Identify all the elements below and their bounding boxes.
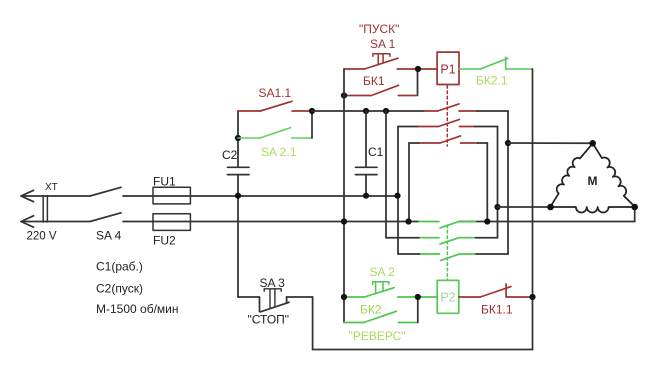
- node SA2/БК2 output: [415, 294, 421, 300]
- svg-text:SA1.1: SA1.1: [259, 86, 292, 100]
- pushbutton SA3 right tick: [286, 297, 288, 303]
- svg-text:XT: XT: [45, 182, 58, 193]
- contact БК2: [344, 311, 417, 322]
- svg-text:"РЕВЕРС": "РЕВЕРС": [349, 329, 406, 343]
- svg-text:220 V: 220 V: [27, 231, 57, 243]
- wire БК1 right riser: [417, 69, 419, 96]
- node motor lower-left vertex: [547, 204, 554, 211]
- wire green row2 left corner: [386, 237, 419, 239]
- wire green row3 left corner: [398, 253, 420, 255]
- node БК1.1 output on right riser: [529, 294, 535, 300]
- capacitor C2 plate top: [228, 166, 250, 168]
- svg-text:C1: C1: [368, 145, 384, 159]
- relay coil P1: [437, 52, 459, 84]
- wire riser x=508 (row1 to green row3): [507, 111, 509, 254]
- wire riser x=497.5 (row2 to green row2 right): [497, 127, 499, 238]
- svg-text:SA 2.1: SA 2.1: [261, 145, 297, 159]
- node БК1 left: [341, 92, 347, 98]
- svg-text:P2: P2: [440, 291, 455, 305]
- svg-text:FU1: FU1: [153, 175, 176, 189]
- switch SA4 pole 2 blade: [90, 213, 121, 222]
- svg-text:SA 2: SA 2: [370, 265, 396, 279]
- wire riser x=487.3 (row3 to bottom main): [486, 143, 488, 222]
- node motor lower-right vertex: [631, 204, 638, 211]
- svg-text:М-1500 об/мин: М-1500 об/мин: [96, 302, 178, 316]
- wire control left riser x=344: [343, 69, 345, 323]
- wire top supply from arrow to SA4: [21, 195, 90, 197]
- node SA2 left: [341, 294, 347, 300]
- svg-text:FU2: FU2: [153, 234, 176, 248]
- node C2 / SA2.1 junction: [235, 135, 241, 141]
- contact БК2.1: [459, 57, 533, 69]
- contact БК1.1: [459, 284, 533, 297]
- node motor lower-left branch on riser x=497.5: [494, 204, 500, 210]
- wire motor lower-right drop: [634, 207, 636, 222]
- svg-text:БК1.1: БК1.1: [481, 303, 513, 317]
- contact P2.2 green row2: [419, 238, 476, 245]
- contact P2.1 green row1: [419, 221, 476, 228]
- wire row3 right corner: [478, 142, 488, 144]
- wire SA3 right to frame riser: [287, 296, 313, 298]
- wire bottom frame: [313, 349, 533, 351]
- wire green row3 right corner: [476, 253, 508, 255]
- wire to motor lower-left vertex: [498, 206, 551, 208]
- arrow top supply terminal: [21, 190, 34, 201]
- wire C2 branch vertical x=238 upper: [237, 111, 239, 167]
- wire top main line (SA4 to node at x=397): [123, 195, 397, 197]
- wire to motor top vertex: [508, 142, 593, 144]
- node riser x=487.3 on bottom main line: [484, 218, 490, 224]
- node riser x=398 on top main line: [394, 193, 400, 199]
- contact SA2.1: [238, 128, 312, 138]
- node SA1.1 output: [309, 108, 315, 114]
- wire start-branch row1 left (to red contact): [312, 110, 424, 112]
- mechanical link P2 dashed: [446, 225, 448, 280]
- switch SA4 pole 1 blade: [90, 187, 121, 196]
- fuse FU2: [153, 214, 190, 231]
- mechanical link P1 dashed: [446, 86, 448, 147]
- pushbutton SA3 СТОП left corner: [238, 297, 260, 312]
- wire riser x=398 (row2 to green row3 left): [397, 127, 399, 255]
- svg-text:БК2: БК2: [360, 303, 382, 317]
- wire C1 branch vertical lower: [365, 175, 367, 196]
- motor M winding left: [551, 143, 593, 206]
- wire C1 branch vertical upper: [365, 111, 367, 167]
- contact P2.3 green row3: [420, 254, 477, 261]
- arrow bottom supply terminal: [21, 216, 34, 227]
- svg-text:БК2.1: БК2.1: [476, 74, 508, 88]
- pushbutton SA2 actuator: [373, 282, 389, 294]
- node C1 bottom on top main line: [363, 193, 369, 199]
- node C2 / top main line: [235, 193, 241, 199]
- node SA1/БК1 output: [415, 66, 421, 72]
- wire crossover riser x=386 (row1 to green row2 left): [385, 111, 387, 238]
- node motor top vertex: [589, 140, 596, 147]
- pushbutton SA2 РЕВЕРС: [344, 288, 437, 297]
- svg-text:C1(раб.): C1(раб.): [96, 260, 143, 274]
- node control riser / bottom main line: [341, 218, 347, 224]
- node motor top branch on riser x=508: [505, 140, 511, 146]
- svg-text:C2(пуск): C2(пуск): [96, 282, 143, 296]
- fuse FU1: [153, 187, 190, 204]
- wire row1 right corner to riser x=508: [477, 110, 508, 112]
- wire riser x=409 (row3 to bottom main): [408, 143, 410, 222]
- node row1 / crossover branch: [383, 108, 389, 114]
- wire row3 left corner: [409, 142, 419, 144]
- svg-text:SA 1: SA 1: [370, 37, 396, 51]
- capacitor C2 plate bottom: [228, 174, 250, 176]
- pushbutton SA1 ПУСК: [344, 58, 437, 69]
- terminal block XT bar 2: [46, 196, 48, 223]
- node riser x=409 on bottom main line: [405, 218, 411, 224]
- wire bottom main line left segment: [123, 221, 419, 223]
- wire bottom supply from arrow to SA4: [21, 221, 90, 223]
- wire right control riser x=532.5: [532, 69, 534, 350]
- wire frame riser x=312.6: [312, 297, 314, 350]
- pushbutton SA3 blade: [261, 302, 290, 312]
- wire БК2 right riser: [417, 297, 419, 323]
- wire C2 to stop-branch vertical x=238 lower: [237, 175, 239, 297]
- contact SA1.1: [238, 101, 312, 111]
- svg-text:P1: P1: [440, 63, 455, 77]
- wire bottom main line right segment to motor: [460, 221, 635, 223]
- contact БК1: [344, 85, 416, 95]
- svg-text:M: M: [588, 174, 598, 188]
- pushbutton SA3 actuator: [264, 289, 281, 309]
- wire junction SA1.1/SA2.1 vertical: [311, 111, 313, 138]
- capacitor C1 plate bottom: [356, 174, 378, 176]
- svg-text:SA 3: SA 3: [260, 276, 286, 290]
- node C1 top: [363, 108, 369, 114]
- contact P1.3 row3: [419, 136, 478, 143]
- capacitor C1 plate top: [356, 166, 378, 168]
- wire row2 right corner: [475, 126, 498, 128]
- svg-text:C2: C2: [222, 148, 238, 162]
- svg-text:"СТОП": "СТОП": [248, 313, 290, 327]
- svg-text:SA 4: SA 4: [96, 229, 122, 243]
- motor M winding right: [593, 143, 635, 206]
- svg-text:"ПУСК": "ПУСК": [359, 22, 399, 36]
- pushbutton SA1 actuator: [373, 54, 390, 65]
- svg-text:БК1: БК1: [363, 74, 385, 88]
- terminal block XT bar 1: [42, 196, 44, 223]
- contact P1.1 row1: [424, 104, 477, 111]
- contact P1.2 row2: [418, 119, 476, 126]
- motor M winding bottom: [551, 207, 635, 212]
- relay coil P2: [437, 280, 459, 313]
- wire green row2 right corner: [476, 237, 498, 239]
- wire row2 left corner: [398, 126, 418, 128]
